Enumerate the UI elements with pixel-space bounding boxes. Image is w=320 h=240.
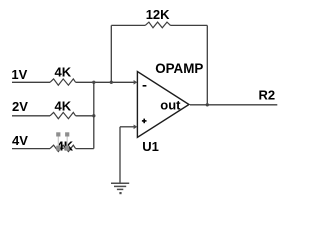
pin arrow into plus input	[134, 125, 138, 130]
node: junction row2 / input bus	[92, 114, 95, 117]
wire: ground stem	[119, 127, 121, 183]
op-amp designator U1	[142, 139, 159, 154]
resistor 4K (row 3, selected)	[50, 145, 76, 151]
svg-text:2V: 2V	[12, 99, 28, 114]
node: junction row1 / feedback tap	[110, 81, 113, 84]
wire: row1 resistor to op-amp minus input	[76, 81, 135, 83]
wire: feedback left leg	[110, 25, 112, 82]
wire: row3 resistor to bus corner	[76, 148, 94, 150]
svg-text:U1: U1	[142, 139, 159, 154]
resistor 4K (row 2)	[50, 99, 76, 119]
op-amp label OPAMP	[155, 61, 203, 76]
svg-text:4K: 4K	[55, 99, 72, 114]
selection handle right (row-3 resistor)	[65, 132, 69, 150]
resistor 4K (row 1)	[50, 65, 76, 86]
pin arrow into minus input	[134, 80, 138, 85]
source label 2V	[12, 99, 28, 114]
net label R2	[259, 88, 276, 103]
source label 1V	[11, 67, 27, 82]
wire: feedback top right segment	[171, 24, 208, 26]
ground symbol	[111, 183, 129, 194]
node: junction feedback / output	[206, 103, 209, 106]
source label 4V	[12, 133, 28, 148]
value label 4K (row 3, over resistor)	[57, 139, 74, 154]
wire: output to R2	[190, 104, 277, 106]
resistor 12K (feedback)	[145, 7, 170, 28]
op-amp plus sign	[142, 119, 147, 124]
wire: 2V lead	[12, 115, 50, 117]
svg-text:OPAMP: OPAMP	[155, 61, 203, 76]
wire: row2 resistor to bus	[76, 115, 94, 117]
svg-text:1V: 1V	[11, 67, 27, 82]
selection handle left (row-3 resistor)	[56, 132, 60, 150]
wire: feedback right leg	[206, 25, 208, 104]
node: junction row1 / input bus	[92, 81, 95, 84]
op-amp label out	[160, 97, 181, 112]
svg-text:12K: 12K	[146, 7, 170, 22]
op-amp U1 triangle	[137, 72, 189, 138]
svg-text:out: out	[160, 97, 181, 112]
wire: plus input lead	[120, 126, 134, 128]
wire: 4V lead	[12, 148, 50, 150]
svg-text:R2: R2	[259, 88, 276, 103]
wire: 1V lead	[12, 81, 50, 83]
op-amp minus sign	[143, 85, 147, 87]
wire: input bus vertical	[93, 82, 95, 148]
wire: feedback top left segment	[111, 24, 145, 26]
svg-text:4K: 4K	[55, 65, 72, 80]
svg-text:4V: 4V	[12, 133, 28, 148]
